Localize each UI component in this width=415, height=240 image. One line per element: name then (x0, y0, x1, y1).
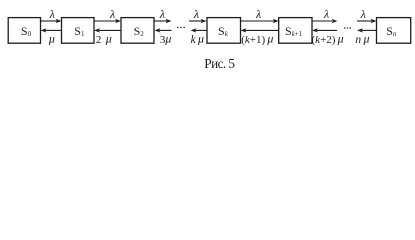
svg-text:(k+2) μ: (k+2) μ (312, 32, 344, 46)
arrow lambda dots->Sn (357, 19, 377, 23)
svg-text:λ: λ (159, 7, 165, 21)
svg-text:Sk: Sk (218, 24, 229, 38)
arrow lambda S1->S2 (94, 19, 121, 23)
state S0 (8, 18, 40, 44)
arrow lambda S0->S1 (41, 19, 62, 23)
svg-text:λ: λ (193, 7, 199, 21)
svg-text:2 μ: 2 μ (96, 32, 112, 46)
ellipsis 1 (177, 27, 185, 29)
state Sn (377, 18, 411, 44)
arrow lambda dots->Sk (189, 19, 207, 23)
svg-text:μ: μ (48, 32, 55, 46)
state Sk+1 (279, 18, 312, 44)
svg-text:S0: S0 (21, 24, 32, 38)
arrow mu Sk->dots (191, 28, 208, 32)
svg-text:S1: S1 (74, 24, 85, 38)
state S2 (121, 18, 154, 44)
arrow mu Sn->dots (357, 28, 377, 32)
svg-text:(k+1) μ: (k+1) μ (241, 32, 273, 46)
arrow lambda S2->dots (154, 19, 172, 23)
svg-text:λ: λ (323, 7, 329, 21)
arrow lambda Sk+1->dots (312, 19, 338, 23)
arrow mu S2->S1 (94, 28, 121, 32)
svg-text:λ: λ (255, 7, 261, 21)
svg-text:λ: λ (49, 7, 55, 21)
arrow mu Sk+1->Sk (241, 28, 279, 32)
svg-text:3μ: 3μ (160, 32, 172, 46)
svg-text:k μ: k μ (191, 32, 204, 46)
arrow mu S1->S0 (41, 28, 62, 32)
state S1 (62, 18, 95, 44)
svg-text:n μ: n μ (355, 32, 369, 46)
svg-text:λ: λ (360, 7, 366, 21)
state Sk (207, 18, 241, 44)
svg-text:Sk+1: Sk+1 (285, 24, 303, 38)
svg-text:λ: λ (109, 7, 115, 21)
arrow lambda Sk->Sk+1 (241, 19, 279, 23)
ellipsis 2 (344, 27, 351, 29)
arrow mu dots->S2 (155, 28, 172, 32)
svg-text:S2: S2 (134, 24, 145, 38)
svg-text:Sn: Sn (386, 24, 397, 38)
arrow mu dots->Sk+1 (312, 28, 337, 32)
svg-text:Рис. 5: Рис. 5 (204, 56, 235, 71)
